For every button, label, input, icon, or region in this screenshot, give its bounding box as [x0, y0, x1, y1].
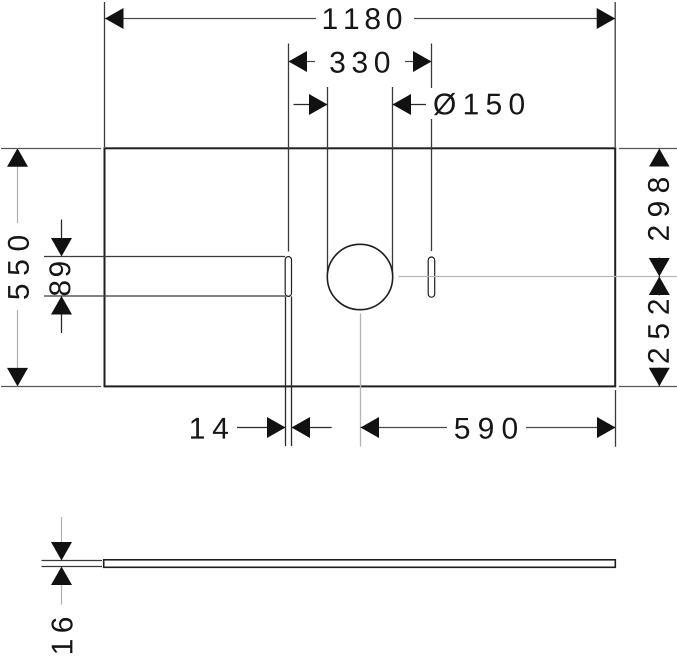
label 298 halo: [643, 167, 676, 258]
extension line hole tangent right: [392, 87, 394, 277]
dimension 89 tail top: [61, 220, 63, 251]
arrow 252 top (points up): [649, 277, 670, 296]
arrow 16 bottom (points up): [51, 567, 72, 586]
arrow 298 top (points up): [649, 149, 670, 168]
dimension 89 tail bottom: [61, 302, 63, 333]
extension line 1180 left: [104, 2, 106, 147]
extension line 1180 right: [614, 2, 616, 147]
dimension line 298: [658, 149, 660, 277]
label 330: [330, 52, 389, 73]
label 298 (rotated): [648, 178, 669, 240]
arrow 14 left (points right): [267, 417, 286, 438]
label 89 (rotated): [49, 262, 70, 295]
left slot (overflow slot): [285, 257, 291, 297]
arrow 550 bottom: [7, 368, 28, 387]
extension line 89 top (slot top): [44, 256, 285, 258]
dimension line 1180: [105, 18, 615, 20]
dimension line D150 left segment: [294, 104, 328, 106]
label 1180: [324, 8, 402, 29]
label 16 (rotated): [51, 618, 72, 653]
dimension 16 tail bottom: [61, 582, 63, 605]
label 590: [455, 418, 517, 439]
extension line 550 bottom: [1, 386, 101, 388]
label D150: [434, 93, 524, 115]
arrow 252 bottom (points down): [649, 368, 670, 387]
arrow 330 right: [413, 51, 432, 72]
centerline horizontal through hole to right edge: [399, 276, 677, 278]
label 1180 halo: [316, 4, 414, 32]
arrow 89 bottom (points up): [51, 296, 72, 315]
arrow 1180 right: [597, 8, 616, 29]
dimension line 590: [361, 427, 616, 429]
centerline vertical below hole: [360, 314, 362, 447]
arrow 16 top (points down): [51, 542, 72, 561]
extension line 14 right (slot edge down): [291, 296, 293, 446]
label 550 halo: [2, 223, 34, 310]
arrow D150 right (points left): [393, 94, 412, 115]
arrow 590 right (points right): [597, 417, 616, 438]
arrow 330 left: [289, 51, 308, 72]
arrow D150 left (points right): [309, 94, 328, 115]
extension line 330 right (to right slot top): [431, 44, 433, 252]
extension line 89 bottom (slot bottom): [44, 295, 285, 297]
arrow 590 left (points left): [361, 417, 380, 438]
dimension line 14 right tail: [292, 427, 332, 429]
extension line 16 bottom: [42, 566, 103, 568]
dimension 16 tail top: [61, 517, 63, 545]
dimension line 330: [289, 61, 432, 63]
extension line 550 top: [1, 148, 101, 150]
extension line 252 bottom right: [619, 386, 677, 388]
extension line 298 top right: [619, 148, 677, 150]
label D150 halo: [426, 88, 528, 119]
arrow 14 right (points left): [292, 417, 311, 438]
label 330 halo: [315, 47, 405, 75]
arrow 298 bottom (points down): [649, 258, 670, 277]
right slot: [428, 257, 435, 297]
label 14: [191, 418, 228, 439]
faucet hole circle: [327, 244, 392, 309]
extension line 14 left (slot edge down): [285, 296, 287, 446]
label 252 halo: [643, 296, 676, 368]
label 590 halo: [447, 413, 526, 441]
extension line 330 left (to left slot top): [288, 44, 290, 252]
label 252 (rotated): [648, 300, 669, 363]
arrow 1180 left: [105, 8, 124, 29]
dimension line D150 right segment: [393, 104, 429, 106]
arrow 89 top (points down): [51, 238, 72, 257]
extension line hole tangent left: [327, 87, 329, 277]
top view panel outline: [105, 148, 616, 386]
dimension line 14 left tail: [237, 427, 286, 429]
label 550 (rotated): [8, 236, 29, 299]
arrow 550 top: [7, 148, 28, 167]
dimension line 252: [658, 277, 660, 387]
extension line 16 top: [42, 560, 103, 562]
extension line 590 right: [615, 390, 617, 447]
dimension line 550: [17, 148, 19, 386]
side view plate outline: [104, 560, 616, 568]
